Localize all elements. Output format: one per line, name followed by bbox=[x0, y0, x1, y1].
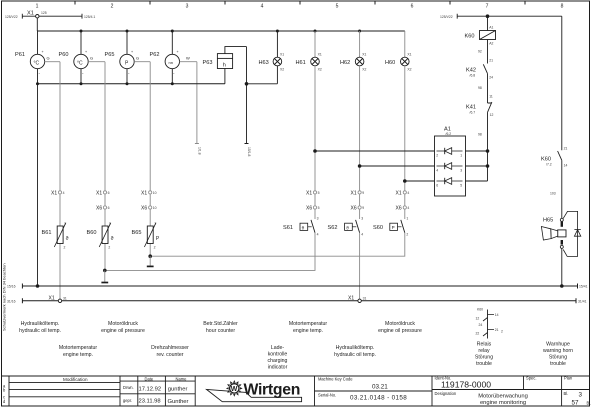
svg-text:17.12.92: 17.12.92 bbox=[139, 386, 162, 392]
svg-text:relay: relay bbox=[478, 348, 490, 354]
svg-text:Störung: Störung bbox=[475, 355, 493, 361]
svg-text:engine monitoring: engine monitoring bbox=[480, 400, 526, 406]
svg-text:6: 6 bbox=[436, 184, 438, 188]
svg-text:P63: P63 bbox=[203, 60, 213, 66]
svg-text:125/V22: 125/V22 bbox=[5, 15, 18, 19]
svg-text:X2: X2 bbox=[407, 68, 411, 72]
ground B65 bbox=[147, 254, 154, 266]
svg-text:1/1.8: 1/1.8 bbox=[198, 147, 202, 155]
title block fields bbox=[318, 375, 591, 405]
svg-text:1: 1 bbox=[460, 154, 462, 158]
ground return line under gauges bbox=[38, 83, 225, 85]
svg-text:22: 22 bbox=[476, 332, 480, 336]
title block bbox=[2, 376, 590, 406]
svg-text:31: 31 bbox=[63, 297, 67, 301]
svg-text:P62: P62 bbox=[150, 52, 160, 58]
svg-text:1: 1 bbox=[36, 4, 39, 10]
svg-text:H61: H61 bbox=[296, 60, 306, 66]
switch S60 hydraulic temp bbox=[373, 216, 408, 236]
svg-text:engine temp.: engine temp. bbox=[63, 352, 93, 358]
svg-text:4: 4 bbox=[436, 169, 438, 173]
svg-text:W: W bbox=[231, 386, 238, 393]
svg-text:14: 14 bbox=[564, 163, 568, 167]
svg-text:/6.8: /6.8 bbox=[470, 74, 476, 78]
connector X1 pins row bbox=[51, 190, 409, 196]
svg-text:21: 21 bbox=[495, 328, 499, 332]
svg-text:4: 4 bbox=[407, 191, 409, 195]
svg-text:ϑ: ϑ bbox=[111, 236, 114, 242]
svg-text:X2: X2 bbox=[318, 68, 322, 72]
bus 125 bbox=[37, 30, 405, 32]
svg-text:°C: °C bbox=[34, 60, 40, 66]
svg-text:H65: H65 bbox=[543, 218, 553, 224]
Wirtgen logo bbox=[207, 380, 302, 402]
svg-text:/6.7: /6.7 bbox=[470, 111, 476, 115]
function labels row 2 bbox=[59, 342, 573, 371]
wire 125 to 125/4.1 bbox=[39, 14, 95, 19]
svg-text:X1: X1 bbox=[362, 53, 366, 57]
svg-text:4: 4 bbox=[407, 206, 409, 210]
svg-text:X6: X6 bbox=[141, 206, 147, 212]
svg-text:P: P bbox=[392, 225, 395, 230]
svg-text:Hydrauliköltemp.: Hydrauliköltemp. bbox=[21, 321, 60, 327]
svg-text:S60: S60 bbox=[373, 225, 383, 231]
svg-text:A2: A2 bbox=[489, 41, 493, 45]
svg-text:gunther: gunther bbox=[168, 386, 188, 392]
svg-text:X1: X1 bbox=[280, 53, 284, 57]
svg-text:1: 1 bbox=[64, 222, 66, 226]
lamp H61 engine temp bbox=[296, 31, 322, 72]
svg-text:119178-0000: 119178-0000 bbox=[441, 379, 491, 389]
svg-text:X1: X1 bbox=[396, 190, 402, 196]
svg-text:Bl.: Bl. bbox=[587, 400, 592, 405]
svg-text:7: 7 bbox=[486, 4, 489, 10]
svg-text:+: + bbox=[131, 50, 133, 54]
wire P65 G terminal bbox=[134, 56, 150, 62]
svg-text:1: 1 bbox=[109, 222, 111, 226]
wire 15 feed off-sheet bbox=[245, 47, 252, 157]
svg-text:/7.2: /7.2 bbox=[546, 162, 552, 166]
svg-text:2: 2 bbox=[64, 246, 66, 250]
svg-text:warning horn: warning horn bbox=[543, 348, 573, 354]
svg-text:Lade-: Lade- bbox=[271, 345, 285, 351]
svg-text:Motortemperatur: Motortemperatur bbox=[289, 321, 328, 327]
svg-text:Schutzvermerk nach DIN 34 beac: Schutzvermerk nach DIN 34 beachten bbox=[2, 263, 7, 331]
wire 125/V22 feed top right bbox=[440, 14, 562, 19]
svg-text:3: 3 bbox=[361, 216, 363, 220]
svg-text:4: 4 bbox=[361, 232, 363, 236]
svg-text:57: 57 bbox=[572, 399, 580, 406]
wire K42 to K41 bbox=[478, 74, 488, 103]
svg-text:103: 103 bbox=[550, 191, 556, 195]
svg-text:°C: °C bbox=[77, 60, 83, 66]
svg-text:3: 3 bbox=[460, 169, 462, 173]
wire H60 column bbox=[404, 66, 406, 219]
svg-text:1: 1 bbox=[154, 222, 156, 226]
wire H60 to A1 pin6 bbox=[405, 180, 435, 182]
horn H65 bbox=[541, 218, 566, 287]
contact K41 bbox=[466, 95, 493, 137]
svg-text:X1: X1 bbox=[407, 53, 411, 57]
svg-text:Name: Name bbox=[176, 376, 188, 381]
svg-text:engine oil pressure: engine oil pressure bbox=[378, 328, 422, 334]
svg-text:2: 2 bbox=[406, 232, 408, 236]
svg-text:4: 4 bbox=[261, 4, 264, 10]
svg-text:trouble: trouble bbox=[476, 361, 492, 367]
svg-text:23.11.98: 23.11.98 bbox=[139, 398, 161, 404]
svg-text:B61: B61 bbox=[42, 230, 52, 236]
svg-text:B60: B60 bbox=[87, 230, 97, 236]
wire S60 return to B65 bbox=[150, 233, 405, 256]
svg-text:nn: nn bbox=[169, 60, 173, 65]
wire W to alternator (off sheet) bbox=[195, 62, 202, 155]
gauge P61 bbox=[15, 31, 45, 84]
svg-text:kontrolle: kontrolle bbox=[268, 352, 288, 358]
ground B60 bbox=[101, 269, 108, 283]
svg-text:G: G bbox=[47, 56, 50, 61]
svg-text:P60: P60 bbox=[59, 52, 69, 58]
svg-text:X2: X2 bbox=[280, 68, 284, 72]
svg-text:H62: H62 bbox=[340, 60, 350, 66]
svg-text:engine oil pressure: engine oil pressure bbox=[101, 328, 145, 334]
wire H62 to A1 pin4 bbox=[360, 165, 435, 167]
contact mirror K60 bbox=[476, 308, 504, 339]
svg-text:98: 98 bbox=[478, 133, 482, 137]
svg-text:11: 11 bbox=[489, 95, 493, 99]
svg-text:3: 3 bbox=[579, 391, 583, 398]
svg-text:2: 2 bbox=[154, 246, 156, 250]
svg-text:15/41: 15/41 bbox=[579, 285, 588, 289]
svg-text:P65: P65 bbox=[105, 52, 115, 58]
wire B61 sensor column bbox=[59, 62, 61, 299]
svg-text:125/V22: 125/V22 bbox=[440, 15, 453, 19]
wire P60 G terminal bbox=[88, 56, 105, 62]
svg-text:10: 10 bbox=[153, 206, 157, 210]
svg-text:ϑ: ϑ bbox=[66, 236, 69, 242]
svg-text:3: 3 bbox=[186, 4, 189, 10]
svg-text:Date: Date bbox=[145, 376, 154, 381]
svg-text:S61: S61 bbox=[283, 225, 293, 231]
sensor B65 pressure sender bbox=[132, 222, 160, 250]
svg-text:X1: X1 bbox=[348, 296, 354, 302]
svg-text:24: 24 bbox=[489, 76, 493, 80]
svg-text:Motortemperatur: Motortemperatur bbox=[59, 345, 98, 351]
wire D+ to H63 bbox=[247, 83, 278, 85]
svg-text:Spec.: Spec. bbox=[526, 375, 536, 380]
svg-text:125: 125 bbox=[41, 11, 47, 15]
contact K42 bbox=[466, 59, 493, 80]
wire right branch down bbox=[561, 16, 563, 150]
lamp H60 hydraulic oil temp bbox=[385, 31, 412, 72]
svg-text:+: + bbox=[42, 50, 44, 54]
svg-text:X6: X6 bbox=[351, 206, 357, 212]
svg-text:Drwn.: Drwn. bbox=[123, 385, 134, 390]
junction dots ground line bbox=[36, 82, 174, 85]
svg-text:engine temp.: engine temp. bbox=[293, 328, 323, 334]
wire X1 down to bus bbox=[36, 18, 38, 31]
svg-text:Serial-No.: Serial-No. bbox=[318, 393, 336, 398]
svg-text:Designation: Designation bbox=[435, 391, 457, 396]
connector X6 pins row bbox=[96, 206, 409, 212]
svg-text:5: 5 bbox=[318, 191, 320, 195]
svg-text:Modification: Modification bbox=[63, 377, 88, 382]
svg-text:X1: X1 bbox=[49, 296, 55, 302]
wire S62 return to X1 bbox=[359, 233, 361, 299]
diode A1 row1 bbox=[436, 148, 462, 158]
wire H61 column bbox=[314, 66, 316, 219]
wire B60 sensor column bbox=[104, 62, 106, 271]
svg-text:H63: H63 bbox=[259, 60, 269, 66]
svg-text:31: 31 bbox=[363, 297, 367, 301]
svg-text:indicator: indicator bbox=[268, 365, 288, 371]
svg-text:charging: charging bbox=[268, 358, 288, 364]
svg-text:X1: X1 bbox=[141, 190, 147, 196]
svg-text:rev. counter: rev. counter bbox=[156, 352, 183, 358]
svg-text:9: 9 bbox=[362, 206, 364, 210]
svg-text:Warnhupe: Warnhupe bbox=[546, 342, 570, 348]
svg-text:Motoröldruck: Motoröldruck bbox=[108, 321, 138, 327]
svg-text:Machine Key Code: Machine Key Code bbox=[318, 377, 353, 382]
wire P62 W terminal bbox=[180, 56, 197, 62]
junction dots on bus 125 bbox=[80, 30, 362, 33]
wire H62 column bbox=[359, 66, 361, 219]
svg-text:X1: X1 bbox=[318, 53, 322, 57]
diode across H65 bbox=[563, 211, 581, 256]
svg-text:98: 98 bbox=[478, 86, 482, 90]
svg-text:Hydrauliköltemp.: Hydrauliköltemp. bbox=[336, 345, 375, 351]
svg-text:X6: X6 bbox=[396, 206, 402, 212]
svg-text:Wirtgen: Wirtgen bbox=[244, 382, 301, 399]
svg-text:S62: S62 bbox=[328, 225, 338, 231]
svg-text:Plan: Plan bbox=[564, 375, 573, 380]
svg-text:Bl.: Bl. bbox=[564, 391, 569, 396]
svg-text:31/16: 31/16 bbox=[7, 300, 16, 304]
svg-text:8: 8 bbox=[561, 4, 564, 10]
svg-text:trouble: trouble bbox=[550, 361, 566, 367]
switch S61 engine temp bbox=[283, 216, 319, 236]
svg-text:3: 3 bbox=[317, 216, 319, 220]
connector X1 pin 31 left bbox=[49, 296, 67, 303]
svg-text:15/16: 15/16 bbox=[7, 285, 16, 289]
svg-text:H60: H60 bbox=[385, 60, 395, 66]
wire B65 sensor column bbox=[149, 62, 151, 257]
svg-text:2: 2 bbox=[111, 4, 114, 10]
svg-text:+: + bbox=[177, 50, 179, 54]
function labels row 1 bbox=[19, 321, 422, 334]
svg-text:4: 4 bbox=[317, 232, 319, 236]
svg-text:92: 92 bbox=[478, 50, 482, 54]
gauge P60 bbox=[59, 31, 89, 84]
svg-text:03.21: 03.21 bbox=[372, 383, 388, 390]
svg-text:10: 10 bbox=[153, 191, 157, 195]
svg-text:6: 6 bbox=[108, 206, 110, 210]
svg-text:1: 1 bbox=[406, 216, 408, 220]
svg-text:Störung: Störung bbox=[549, 355, 567, 361]
svg-text:5: 5 bbox=[460, 184, 462, 188]
svg-text:/6.2: /6.2 bbox=[446, 132, 452, 136]
wire H61 to A1 pin2 bbox=[315, 150, 435, 152]
svg-text:125/4.1: 125/4.1 bbox=[84, 15, 95, 19]
svg-text:2: 2 bbox=[501, 330, 503, 334]
svg-text:Relais: Relais bbox=[477, 342, 492, 348]
svg-text:K60: K60 bbox=[465, 34, 475, 40]
svg-text:X1: X1 bbox=[351, 190, 357, 196]
svg-text:15/1.8: 15/1.8 bbox=[247, 147, 251, 157]
svg-text:X6: X6 bbox=[96, 206, 102, 212]
svg-text:5: 5 bbox=[318, 206, 320, 210]
svg-text:Betr.Std.Zähler: Betr.Std.Zähler bbox=[203, 321, 238, 327]
svg-text:Gunther: Gunther bbox=[168, 399, 189, 405]
contact K60 bbox=[541, 146, 567, 167]
svg-text:X6: X6 bbox=[306, 206, 312, 212]
sensor B60 temp sender bbox=[87, 222, 114, 250]
svg-text:12: 12 bbox=[490, 113, 494, 117]
svg-text:hydraulic oil temp.: hydraulic oil temp. bbox=[19, 328, 61, 334]
svg-text:A1: A1 bbox=[489, 26, 493, 30]
wire coil to K42 bbox=[478, 40, 488, 64]
diode A1 row2 bbox=[436, 163, 462, 173]
svg-text:4: 4 bbox=[63, 191, 65, 195]
svg-text:5: 5 bbox=[336, 4, 339, 10]
svg-text:gepr.: gepr. bbox=[123, 398, 132, 403]
svg-text:12: 12 bbox=[476, 317, 480, 321]
svg-text:B65: B65 bbox=[132, 230, 142, 236]
svg-text:14: 14 bbox=[495, 313, 499, 317]
svg-text:21: 21 bbox=[489, 59, 493, 63]
svg-text:X1: X1 bbox=[51, 190, 57, 196]
svg-text:21: 21 bbox=[564, 146, 568, 150]
svg-text:+: + bbox=[85, 50, 87, 54]
svg-text:9: 9 bbox=[362, 191, 364, 195]
svg-text:X1: X1 bbox=[96, 190, 102, 196]
diode A1 row3 bbox=[436, 178, 462, 188]
bus 15 bottom bbox=[7, 284, 588, 289]
svg-text:Motoröldruck: Motoröldruck bbox=[385, 321, 415, 327]
wire ground drop to bus 15 bbox=[37, 84, 39, 286]
svg-text:hour counter: hour counter bbox=[206, 328, 235, 334]
svg-text:K60: K60 bbox=[477, 308, 483, 312]
hour counter P63 bbox=[203, 54, 233, 69]
svg-text:Motorüberwachung: Motorüberwachung bbox=[478, 393, 528, 399]
svg-text:31/41: 31/41 bbox=[578, 300, 587, 304]
svg-text:P61: P61 bbox=[15, 52, 25, 58]
svg-text:Drehzahlmesser: Drehzahlmesser bbox=[151, 345, 189, 351]
connector X1 pin 125 bbox=[27, 11, 47, 18]
wire P61 G terminal bbox=[45, 56, 60, 62]
svg-text:24: 24 bbox=[479, 323, 483, 327]
relay coil K60 bbox=[465, 16, 496, 45]
connector X1 pin 31 right bbox=[348, 296, 366, 303]
wire 125/V22 left bbox=[5, 14, 36, 19]
svg-text:X1: X1 bbox=[27, 11, 34, 17]
svg-text:2: 2 bbox=[108, 246, 110, 250]
wire S61 return to B60 bbox=[105, 233, 315, 271]
wire K60 contact to H65 bbox=[550, 160, 562, 218]
svg-text:X2: X2 bbox=[362, 68, 366, 72]
lamp H63 charging indicator bbox=[259, 31, 285, 84]
svg-text:X1: X1 bbox=[306, 190, 312, 196]
svg-text:W: W bbox=[186, 56, 190, 61]
sensor B61 temp sender bbox=[42, 222, 69, 250]
lamp H62 oil pressure bbox=[340, 31, 366, 72]
gauge P62 rev counter bbox=[150, 31, 180, 84]
svg-text:03.21.0148 - 0158: 03.21.0148 - 0158 bbox=[350, 395, 407, 402]
svg-text:6: 6 bbox=[411, 4, 414, 10]
diode module A1 bbox=[435, 127, 466, 197]
svg-text:hydraulic oil temp.: hydraulic oil temp. bbox=[334, 352, 376, 358]
gauge P65 bbox=[105, 31, 135, 84]
svg-text:G: G bbox=[136, 56, 139, 61]
wire P63 top feed bbox=[225, 47, 247, 54]
svg-text:h: h bbox=[223, 62, 226, 68]
bus 31 bottom bbox=[7, 298, 587, 303]
svg-text:G: G bbox=[90, 56, 93, 61]
svg-text:6: 6 bbox=[108, 191, 110, 195]
svg-text:2: 2 bbox=[436, 154, 438, 158]
switch S62 oil pressure bbox=[328, 216, 364, 236]
wire A1 right pins to K41 bbox=[466, 112, 490, 181]
wire P63 bottom to ground line bbox=[224, 69, 226, 84]
